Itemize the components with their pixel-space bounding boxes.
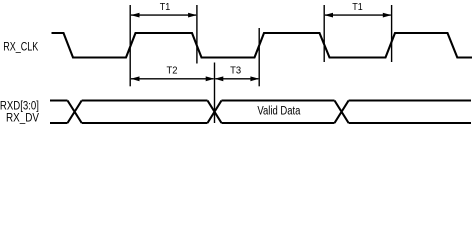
dimension T3 arrow xyxy=(215,78,258,80)
svg-text:T1: T1 xyxy=(160,2,171,13)
wire RX_CLK clock waveform xyxy=(52,33,473,58)
svg-text:RXD[3:0]: RXD[3:0] xyxy=(0,100,39,112)
wire bus top rail RXD[3:0]/RX_DV xyxy=(50,99,471,101)
wire extension line at third rising clock edge x=392 xyxy=(391,5,393,62)
dimension T2 arrow xyxy=(131,78,214,80)
svg-text:Valid Data: Valid Data xyxy=(257,106,300,118)
svg-text:T1: T1 xyxy=(352,2,363,13)
dimension T1 (low time) arrow xyxy=(325,14,391,16)
wire extension line at first rising clock edge x=130 xyxy=(129,5,131,86)
svg-text:RX_DV: RX_DV xyxy=(6,113,39,125)
dimension T1 (high time) arrow xyxy=(131,14,196,16)
node bus crossover X2 xyxy=(208,101,222,124)
svg-text:RX_CLK: RX_CLK xyxy=(3,42,38,54)
node bus crossover X3 xyxy=(335,101,349,124)
svg-text:T2: T2 xyxy=(167,66,178,77)
wire extension line at third falling clock edge x=324 xyxy=(323,5,325,62)
wire bus bottom rail xyxy=(50,122,471,124)
node bus crossover X1 xyxy=(68,101,82,124)
wire extension line at second rising clock edge x=259 xyxy=(258,28,260,86)
svg-text:T3: T3 xyxy=(230,66,241,77)
wire extension line at falling clock edge x=197 xyxy=(196,5,198,64)
wire extension line at data transition x=214.5 xyxy=(214,63,216,124)
